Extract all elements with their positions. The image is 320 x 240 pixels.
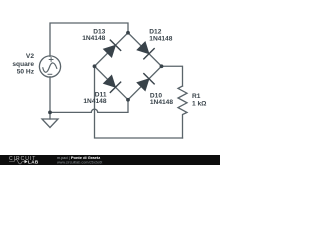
svg-text:m.paci | Ponte di Graetz: m.paci | Ponte di Graetz bbox=[57, 155, 100, 160]
svg-text:1N4148: 1N4148 bbox=[150, 99, 173, 106]
svg-text:1N4148: 1N4148 bbox=[83, 98, 106, 105]
svg-text:1N4148: 1N4148 bbox=[82, 35, 105, 42]
svg-text:1 kΩ: 1 kΩ bbox=[192, 101, 207, 108]
svg-text:LAB: LAB bbox=[28, 160, 39, 165]
svg-text:V2: V2 bbox=[26, 53, 34, 60]
svg-text:50 Hz: 50 Hz bbox=[17, 69, 35, 76]
svg-text:square: square bbox=[12, 61, 34, 68]
svg-text:1N4148: 1N4148 bbox=[149, 35, 172, 42]
svg-text:www.circuitlab.com/c5x2e6t: www.circuitlab.com/c5x2e6t bbox=[57, 160, 102, 164]
svg-text:R1: R1 bbox=[192, 93, 201, 100]
